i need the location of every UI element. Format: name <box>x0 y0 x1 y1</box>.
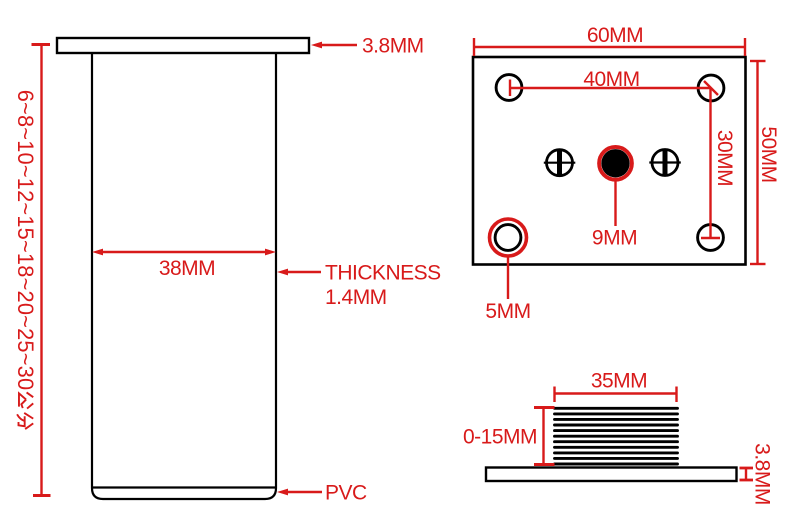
label 3.8MM (top plate) with arrow <box>311 42 357 49</box>
dimension 50MM <box>750 61 766 264</box>
svg-text:3.8MM: 3.8MM <box>751 443 774 505</box>
hole bottom-left with red ring (5MM) <box>495 225 521 251</box>
svg-text:0-15MM: 0-15MM <box>463 426 537 449</box>
dimension 0-15MM <box>534 408 555 465</box>
svg-text:1.4MM: 1.4MM <box>325 286 387 309</box>
foot base plate <box>486 468 737 482</box>
glyph 分 <box>17 413 33 429</box>
PVC cap top line <box>92 486 276 488</box>
center hole 9MM black disc with red ring <box>601 149 629 177</box>
svg-text:40MM: 40MM <box>583 68 639 91</box>
svg-text:30MM: 30MM <box>713 130 736 186</box>
label THICKNESS 1.4MM with arrow <box>277 269 321 276</box>
dimension 60MM <box>474 38 745 56</box>
svg-text:50MM: 50MM <box>757 126 780 182</box>
threaded stack <box>555 408 678 464</box>
dimension 40MM <box>510 80 718 97</box>
left vertical dimension line (height range) <box>32 45 51 496</box>
glyph 公 <box>19 392 33 408</box>
svg-text:THICKNESS: THICKNESS <box>325 262 441 285</box>
hole bottom-right <box>698 225 724 251</box>
label 5MM leader line <box>507 256 509 299</box>
top mounting plate (3.8MM) <box>57 38 309 53</box>
screw cross circle left <box>544 149 576 177</box>
svg-text:35MM: 35MM <box>591 370 647 393</box>
hole top-right <box>698 75 724 101</box>
svg-text:9MM: 9MM <box>592 227 637 250</box>
svg-text:60MM: 60MM <box>587 24 643 47</box>
dimension 38MM double arrow <box>92 249 276 256</box>
hole top-left <box>496 75 522 101</box>
dimension 30MM <box>701 88 720 238</box>
svg-text:3.8MM: 3.8MM <box>362 35 424 58</box>
screw cross circle right <box>649 149 681 177</box>
svg-text:38MM: 38MM <box>159 257 215 280</box>
svg-text:5MM: 5MM <box>485 300 530 323</box>
dimension 3.8MM (base plate thickness) <box>740 468 754 480</box>
plate outline <box>473 57 746 265</box>
dimension 35MM <box>555 387 677 403</box>
svg-text:6~8~10~12~15~18~20~25~30: 6~8~10~12~15~18~20~25~30 <box>13 90 38 391</box>
label 9MM leader line <box>614 181 616 226</box>
tube body with rounded PVC bottom <box>92 53 276 499</box>
svg-text:PVC: PVC <box>325 482 367 505</box>
label PVC with arrow <box>277 489 322 496</box>
rotated height-range text 6~8~10~12~15~18~20~25~30公分 <box>13 90 38 429</box>
